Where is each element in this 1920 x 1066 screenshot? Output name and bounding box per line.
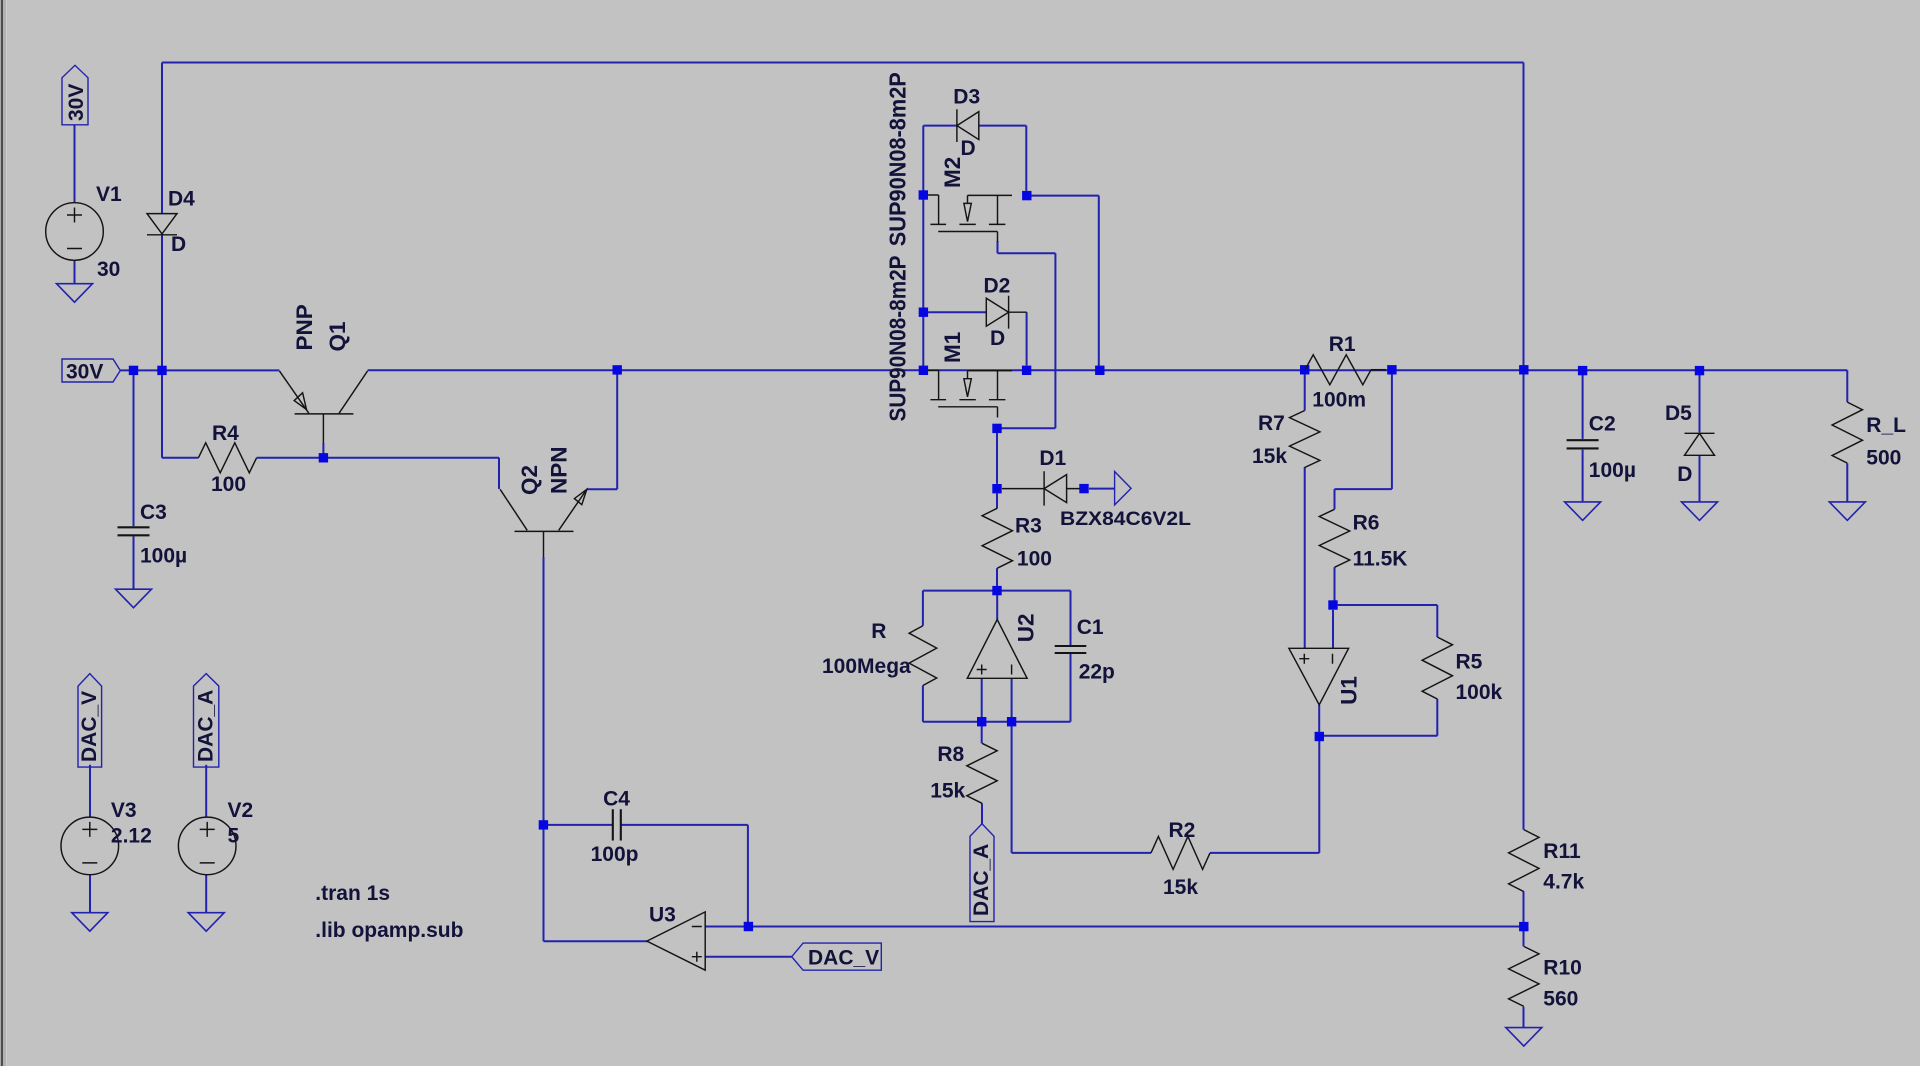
wire R7 bottom to U1 plus input	[1304, 467, 1306, 648]
wire rail junction to R7 top	[1304, 374, 1306, 410]
resistor R_L body	[1832, 402, 1862, 463]
wire U2 plus input lead	[981, 678, 983, 721]
svg-text:.tran 1s: .tran 1s	[315, 882, 390, 905]
wire 30V rail left segment to Q1 emitter	[120, 369, 279, 371]
junction Q1 base / R4 / Q2 collector net	[319, 453, 328, 462]
ground C3	[116, 589, 152, 608]
svg-text:V2: V2	[228, 799, 254, 822]
wire U1 output apex to junction	[1318, 705, 1320, 732]
svg-text:C2: C2	[1589, 413, 1616, 436]
junction R6 / R5 / U1 minus	[1328, 600, 1337, 609]
svg-text:R11: R11	[1543, 840, 1581, 863]
ground D5	[1682, 502, 1718, 521]
svg-text:R7: R7	[1258, 412, 1285, 435]
svg-text:D5: D5	[1665, 402, 1692, 425]
svg-text:U3: U3	[649, 903, 676, 926]
svg-text:D: D	[961, 137, 976, 160]
ground V2	[188, 913, 224, 932]
wire C4 right plate down to U3 minus net	[621, 825, 748, 927]
junction rail / D2 cathode	[1022, 366, 1031, 375]
wire R1 junction down to R6 top	[1335, 374, 1392, 509]
wire R3 bottom to U2 output junction	[996, 568, 998, 590]
svg-text:V1: V1	[96, 183, 122, 206]
wire R5 bottom to U1 output junction	[1324, 699, 1438, 736]
junction M2 drain / D3	[1022, 191, 1031, 200]
resistor R10 body	[1509, 946, 1539, 1006]
svg-text:PNP: PNP	[292, 304, 317, 350]
svg-text:11.5K: 11.5K	[1353, 548, 1408, 571]
svg-text:D3: D3	[953, 85, 980, 108]
port flag DAC_V left	[78, 674, 102, 768]
wire R10 to ground	[1523, 1007, 1525, 1028]
svg-text:Q1: Q1	[325, 321, 350, 351]
window left border	[0, 0, 1, 1066]
svg-text:15k: 15k	[1252, 445, 1287, 468]
svg-text:15k: 15k	[930, 780, 965, 803]
svg-text:100p: 100p	[591, 843, 639, 866]
svg-text:R8: R8	[937, 743, 964, 766]
svg-text:R10: R10	[1543, 957, 1582, 980]
wire D1 junction to R3 top	[996, 494, 998, 509]
svg-text:D2: D2	[984, 275, 1011, 298]
svg-text:R3: R3	[1015, 515, 1042, 538]
svg-text:4.7k: 4.7k	[1543, 871, 1584, 894]
junction rail / R1 left / R7	[1300, 365, 1309, 374]
svg-text:SUP90N08-8m2P: SUP90N08-8m2P	[885, 256, 911, 422]
voltage source V3	[61, 817, 119, 875]
junction M2 gate	[919, 190, 928, 199]
capacitor C2 plates	[1567, 440, 1599, 448]
wire 30V rail main segment	[368, 369, 1848, 371]
diode D1	[1002, 471, 1080, 505]
svg-text:Q2: Q2	[517, 465, 542, 495]
wire U2 minus down to R2 left	[1012, 722, 1151, 853]
voltage source V1	[46, 203, 104, 261]
diode D4	[147, 214, 177, 235]
resistor R4 body	[198, 443, 256, 473]
resistor R 100Mega body	[909, 626, 937, 686]
wire rail junction down-left to R4	[162, 370, 198, 457]
svg-text:BZX84C6V2L: BZX84C6V2L	[1060, 508, 1191, 530]
junction rail / M2 drain branch	[1095, 366, 1104, 375]
wire down to R 100Mega top	[922, 591, 924, 626]
junction rail / R1 right / R6	[1387, 365, 1396, 374]
svg-text:R6: R6	[1353, 511, 1380, 534]
resistor R3 body	[982, 508, 1012, 568]
svg-text:R5: R5	[1456, 651, 1483, 674]
junction D1 anode / R3	[992, 484, 1001, 493]
wire R_L bottom to ground	[1846, 463, 1848, 502]
wire R6 bottom to junction	[1334, 567, 1336, 605]
wire rail to C3 top	[133, 370, 135, 526]
svg-text:2.12: 2.12	[111, 825, 152, 848]
svg-text:D: D	[171, 233, 186, 256]
port flag DAC_A left	[194, 674, 219, 768]
wire D3 row and down to M2 drain junction	[923, 126, 1026, 191]
junction M1 source / M2 source net	[992, 424, 1001, 433]
wire U2 output top rail	[923, 590, 1071, 592]
resistor R5 body	[1422, 637, 1452, 699]
svg-text:30V: 30V	[66, 361, 103, 384]
resistor R1 body	[1305, 355, 1371, 385]
wire Q1 base lead blue part	[322, 443, 324, 458]
port flag BZX output	[1115, 472, 1132, 505]
resistor R11 body	[1509, 830, 1539, 892]
wire C1 bottom lead	[1070, 654, 1072, 722]
wire U3 minus input net to R11/R10 junction	[705, 926, 1523, 928]
svg-text:100µ: 100µ	[1589, 459, 1636, 482]
wire U2 output apex to junction	[996, 586, 998, 620]
wire Q2 base down to U3 output	[544, 557, 649, 941]
wire D4 cathode to rail	[161, 235, 163, 371]
svg-text:SUP90N08-8m2P: SUP90N08-8m2P	[885, 72, 911, 246]
wire C3 bottom to ground	[133, 536, 135, 589]
junction rail / right vertical	[1519, 365, 1528, 374]
wire Q2 emitter up to rail junction	[587, 370, 617, 489]
capacitor C4 plates	[613, 809, 621, 840]
svg-text:100: 100	[1017, 547, 1052, 570]
svg-text:U1: U1	[1337, 676, 1362, 705]
ground V1	[57, 284, 93, 303]
junction U2 plus / R8	[977, 717, 986, 726]
svg-text:DAC_A: DAC_A	[970, 844, 993, 916]
svg-text:C4: C4	[603, 788, 630, 811]
wire R 100Mega bottom rail	[923, 686, 1071, 722]
mosfet M2	[928, 195, 1012, 242]
diode D2	[986, 296, 1026, 329]
junction U2 minus / bottom rail	[1007, 717, 1016, 726]
wire right vertical from top to R11	[1523, 63, 1525, 830]
svg-text:R: R	[871, 620, 886, 643]
port flag DAC_V right	[792, 943, 882, 970]
wire junction to R8 top	[981, 722, 983, 744]
diode D3	[957, 109, 979, 142]
wire D1 to BZX output port	[1089, 488, 1114, 490]
svg-text:DAC_A: DAC_A	[195, 690, 218, 762]
wire R4 to Q2 collector arm	[257, 458, 499, 489]
junction D1 cathode / port	[1079, 484, 1088, 493]
svg-text:22p: 22p	[1079, 660, 1115, 683]
svg-text:100µ: 100µ	[140, 545, 187, 568]
wire top horizontal 30V feed	[162, 62, 1524, 64]
junction C4 right / U3 minus net	[744, 922, 753, 931]
wire D2 cathode down to rail junction	[1026, 312, 1028, 365]
wire D4 anode from top wire	[161, 63, 163, 214]
capacitor C1 plates	[1055, 646, 1087, 653]
wire node to C4 left plate	[544, 824, 613, 826]
wire M1 source node down to D1 junction	[996, 428, 998, 484]
svg-text:D: D	[990, 327, 1005, 350]
junction rail / Q2 emitter	[613, 365, 622, 374]
svg-text:NPN: NPN	[547, 446, 572, 494]
wire rail to D5 cathode	[1699, 375, 1701, 432]
port flag 30V top	[62, 65, 88, 125]
wire U3 plus input to DAC_V port	[705, 956, 792, 958]
wire rail to R_L top	[1846, 370, 1848, 402]
wire DAC_V flag to V3 plus	[89, 765, 91, 818]
svg-text:R4: R4	[212, 422, 239, 445]
resistor R8 body	[967, 743, 997, 803]
svg-text:R_L: R_L	[1866, 414, 1906, 437]
junction U1 output / R5 / R2	[1315, 732, 1324, 741]
svg-text:.lib opamp.sub: .lib opamp.sub	[315, 919, 463, 942]
junction Q2 base net / C4	[539, 820, 548, 829]
wire C2 bottom to ground	[1582, 450, 1584, 502]
svg-text:C1: C1	[1077, 616, 1104, 639]
transistor Q2 NPN	[500, 489, 587, 557]
wire M2 drain right and down to rail	[1031, 196, 1099, 371]
wire rail to C2 top	[1582, 375, 1584, 439]
op-amp U3	[647, 912, 705, 970]
svg-text:100k: 100k	[1456, 681, 1503, 704]
wire V2 minus to ground	[205, 875, 207, 913]
ground C2	[1565, 502, 1601, 521]
junction rail / C3	[129, 366, 138, 375]
wire R2 right up to U1 output junction	[1210, 737, 1319, 853]
svg-text:30V: 30V	[65, 84, 88, 121]
svg-text:R1: R1	[1329, 333, 1356, 356]
wire R1 right lead	[1371, 369, 1386, 371]
svg-text:R2: R2	[1169, 819, 1196, 842]
svg-text:D4: D4	[168, 188, 195, 211]
ground R_L	[1829, 502, 1865, 521]
svg-text:D1: D1	[1039, 447, 1066, 470]
wire U2 minus input lead	[1011, 678, 1013, 721]
svg-text:100m: 100m	[1312, 389, 1366, 412]
wire junction to R5 top	[1338, 605, 1438, 637]
junction rail / D5	[1695, 366, 1704, 375]
resistor R2 body	[1151, 836, 1210, 869]
op-amp U1	[1289, 648, 1349, 705]
voltage source V2	[178, 817, 236, 875]
svg-text:D: D	[1677, 463, 1692, 486]
wire V3 minus to ground	[89, 875, 91, 913]
svg-text:DAC_V: DAC_V	[78, 691, 101, 762]
wire C1 top lead	[1070, 591, 1072, 646]
wire M2/M1 gate vertical	[922, 126, 924, 371]
svg-text:M1: M1	[940, 332, 965, 363]
svg-text:560: 560	[1543, 987, 1578, 1010]
svg-text:M2: M2	[940, 157, 965, 188]
svg-text:100: 100	[211, 473, 246, 496]
svg-text:C3: C3	[140, 501, 167, 524]
wire V1 plus to 30V flag	[74, 125, 76, 203]
transistor Q1 PNP	[279, 371, 367, 443]
wire R11 to R10 through junction	[1523, 891, 1525, 946]
wire R8 bottom to DAC_A port	[981, 803, 983, 824]
svg-text:DAC_V: DAC_V	[808, 947, 879, 970]
ground R10	[1506, 1028, 1542, 1047]
svg-text:30: 30	[97, 258, 120, 281]
junction U2 output / R3 bottom	[992, 586, 1001, 595]
op-amp U2	[967, 620, 1027, 679]
svg-text:15k: 15k	[1163, 876, 1198, 899]
port flag DAC_A mid	[970, 824, 994, 922]
junction rail / D4 / R4	[157, 366, 166, 375]
wire V1 minus to ground	[74, 261, 76, 284]
junction rail / C2	[1578, 366, 1587, 375]
junction gate vertical / D2 anode	[919, 308, 928, 317]
junction R11 / R10 / U3 minus net	[1519, 922, 1528, 931]
junction rail / M1 gate vertical	[919, 366, 928, 375]
resistor R7 body	[1290, 411, 1320, 468]
diode D5	[1685, 433, 1715, 455]
ground V3	[72, 913, 108, 932]
wire DAC_A flag to V2 plus	[205, 765, 207, 818]
port flag 30V rail	[62, 359, 120, 382]
wire M2 source to M1 drain node	[997, 241, 1055, 428]
svg-text:500: 500	[1866, 447, 1901, 470]
svg-text:V3: V3	[111, 799, 137, 822]
wire D5 anode to ground	[1699, 455, 1701, 502]
svg-text:U2: U2	[1013, 613, 1038, 642]
wire D2 anode lead from gate vertical	[928, 311, 987, 313]
wire junction to U1 minus input	[1332, 610, 1334, 648]
resistor R6 body	[1319, 509, 1349, 567]
capacitor C3 plates	[118, 527, 150, 535]
mosfet M1	[928, 370, 1012, 417]
svg-text:5: 5	[228, 825, 240, 848]
svg-text:100Mega: 100Mega	[822, 655, 911, 678]
